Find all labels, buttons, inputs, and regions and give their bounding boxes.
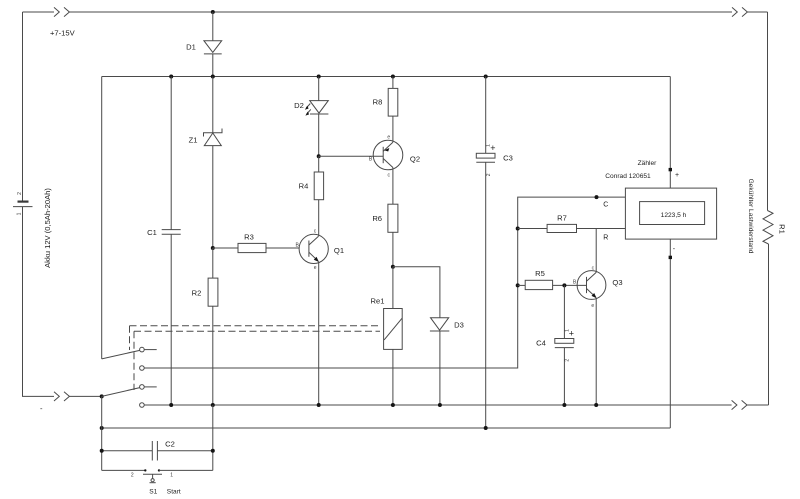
- svg-text:Z1: Z1: [189, 136, 198, 145]
- svg-text:1: 1: [16, 212, 22, 215]
- svg-text:+: +: [490, 143, 495, 153]
- resistor R6: [372, 204, 398, 267]
- svg-text:C2: C2: [165, 440, 175, 449]
- node rail2 C3 junction: [484, 75, 488, 79]
- svg-text:+: +: [675, 172, 679, 179]
- switch contact 3: [140, 385, 145, 390]
- svg-text:Start: Start: [167, 488, 181, 495]
- svg-text:+: +: [569, 329, 574, 339]
- svg-text:+7-15V: +7-15V: [50, 29, 76, 38]
- capacitor C2: [102, 440, 213, 461]
- svg-text:Q3: Q3: [612, 278, 622, 287]
- transistor Q3: [573, 265, 623, 309]
- svg-text:D1: D1: [186, 43, 196, 52]
- resistor R4: [299, 156, 324, 199]
- node bus1 Re1 junction: [391, 403, 395, 407]
- switch S2 arm 1: [102, 350, 141, 359]
- svg-text:R4: R4: [299, 182, 309, 191]
- capacitor C3: [476, 77, 513, 429]
- diode D3: [430, 318, 464, 405]
- wire bus1 right segment: [747, 404, 769, 406]
- node D1 top junction: [211, 10, 215, 14]
- svg-text:R1: R1: [778, 224, 787, 234]
- dashed linkage line 1: [130, 325, 382, 327]
- connector chevrons top left: [54, 7, 69, 16]
- svg-text:Akku 12V (0,5Ah-20Ah): Akku 12V (0,5Ah-20Ah): [43, 188, 52, 268]
- svg-text:1223,5 h: 1223,5 h: [661, 212, 687, 219]
- wire top rail left segment: [23, 11, 55, 13]
- switch S2 arm 2: [102, 388, 141, 397]
- wire contact 3 stub: [144, 386, 157, 388]
- node switch pivot junction: [100, 394, 104, 398]
- svg-text:Conrad 120651: Conrad 120651: [605, 173, 651, 180]
- node bus1 C4 junction: [562, 403, 566, 407]
- dashed linkage vertical 1: [129, 326, 131, 350]
- battery B1: [13, 188, 52, 268]
- connector chevrons bus1 right: [732, 400, 747, 409]
- node bus1 D3 junction: [438, 403, 442, 407]
- wire bus1: [144, 404, 731, 406]
- svg-text:Zähler: Zähler: [638, 160, 657, 167]
- resistor R3: [213, 233, 299, 253]
- svg-text:R: R: [603, 234, 608, 241]
- node R5 left junction: [516, 283, 520, 287]
- svg-text:R8: R8: [373, 98, 383, 107]
- node R6 D3 junction: [391, 265, 395, 269]
- node rail2 Z1 junction: [211, 75, 215, 79]
- resistor R8: [373, 77, 398, 117]
- wire left bottom vertical: [101, 396, 103, 470]
- wire contact 1 stub: [144, 349, 157, 351]
- wire inner top rail: [102, 76, 671, 78]
- resistor R2: [192, 248, 218, 405]
- switch contact 1: [140, 347, 145, 352]
- switch contact 4: [140, 403, 145, 408]
- pushbutton S1: [102, 469, 213, 495]
- svg-text:Q2: Q2: [410, 154, 420, 163]
- svg-text:C: C: [603, 201, 608, 208]
- node bus2 left junction: [100, 426, 104, 430]
- node rail2 C1 junction: [169, 75, 173, 79]
- wire inner left vertical: [101, 77, 103, 359]
- svg-text:C4: C4: [536, 338, 546, 347]
- wire battery to bottom left connector: [23, 207, 55, 397]
- wire Q2 emitter to R8: [392, 116, 394, 142]
- svg-text:R6: R6: [372, 214, 382, 223]
- svg-text:R5: R5: [535, 269, 545, 278]
- svg-text:Q1: Q1: [334, 246, 344, 255]
- svg-text:S1: S1: [149, 488, 157, 495]
- svg-text:2: 2: [564, 359, 570, 362]
- svg-text:D3: D3: [454, 321, 464, 330]
- svg-text:R3: R3: [244, 233, 254, 242]
- svg-text:R2: R2: [192, 289, 202, 298]
- transistor Q2: [369, 134, 420, 178]
- wire Q1 emitter to bus: [318, 262, 320, 406]
- node R7 left junction: [516, 227, 520, 231]
- wire contact2 run to counter C node: [144, 197, 625, 368]
- wire Q3 emitter to bus: [595, 298, 597, 405]
- dashed linkage vertical 2: [133, 331, 135, 390]
- wire Q3 collector to R line: [595, 229, 597, 273]
- node C line junction: [595, 195, 599, 199]
- switch contact 2: [140, 366, 145, 371]
- node bus2 C3 junction: [484, 426, 488, 430]
- zener diode Z1: [189, 77, 222, 249]
- wire right bottom vertical: [212, 405, 214, 470]
- diode D1: [186, 12, 222, 77]
- node bus1 C1 junction: [169, 403, 173, 407]
- svg-text:e: e: [314, 265, 317, 271]
- connector chevrons bottom left: [54, 392, 69, 401]
- wire junction to D3: [393, 267, 440, 318]
- wire left vertical to battery: [22, 12, 24, 201]
- node R5 C4 junction: [562, 283, 566, 287]
- svg-text:R7: R7: [557, 214, 567, 223]
- transistor Q1: [296, 229, 345, 272]
- node C2 left junction: [100, 449, 104, 453]
- resistor R5: [518, 269, 587, 290]
- wire junction to Q2 base: [319, 155, 384, 157]
- capacitor C4: [536, 285, 574, 405]
- dashed linkage line 2: [134, 330, 380, 332]
- relay Re1: [371, 267, 403, 405]
- node C2 right junction: [211, 449, 215, 453]
- svg-text:e: e: [387, 134, 390, 140]
- svg-text:2: 2: [17, 192, 23, 195]
- connector chevrons top right: [732, 7, 747, 16]
- node Z1 R3 junction: [211, 246, 215, 250]
- svg-text:D2: D2: [294, 101, 304, 110]
- node D2 R4 Q2 junction: [317, 154, 321, 158]
- wire top rail main segment: [69, 11, 732, 13]
- svg-text:C3: C3: [503, 154, 513, 163]
- LED D2: [294, 77, 328, 157]
- node rail2 D2 junction: [317, 75, 321, 79]
- resistor R7: [518, 214, 626, 233]
- wire Q1 collector to R4: [318, 200, 320, 237]
- node bus1 R2 junction: [211, 403, 215, 407]
- svg-text:C1: C1: [147, 228, 157, 237]
- wire Q2 collector to R6: [392, 168, 394, 205]
- svg-text:Gekühlter Lastwiderstand: Gekühlter Lastwiderstand: [747, 179, 754, 254]
- svg-text:2: 2: [486, 173, 492, 176]
- svg-text:e: e: [591, 303, 594, 309]
- node bus1 Q3 junction: [594, 403, 598, 407]
- resistor R1: [747, 12, 787, 405]
- node rail2 R8 junction: [391, 75, 395, 79]
- svg-text:2: 2: [131, 472, 134, 478]
- counter U1 Conrad 120651: [605, 77, 716, 429]
- svg-text:1: 1: [170, 472, 173, 478]
- wire top rail right segment: [747, 11, 767, 13]
- wire bus2: [102, 427, 671, 429]
- node bus1 Q1 junction: [317, 403, 321, 407]
- wire connector to switch pivot: [69, 395, 101, 397]
- capacitor C1: [147, 77, 181, 406]
- svg-text:Re1: Re1: [371, 297, 385, 306]
